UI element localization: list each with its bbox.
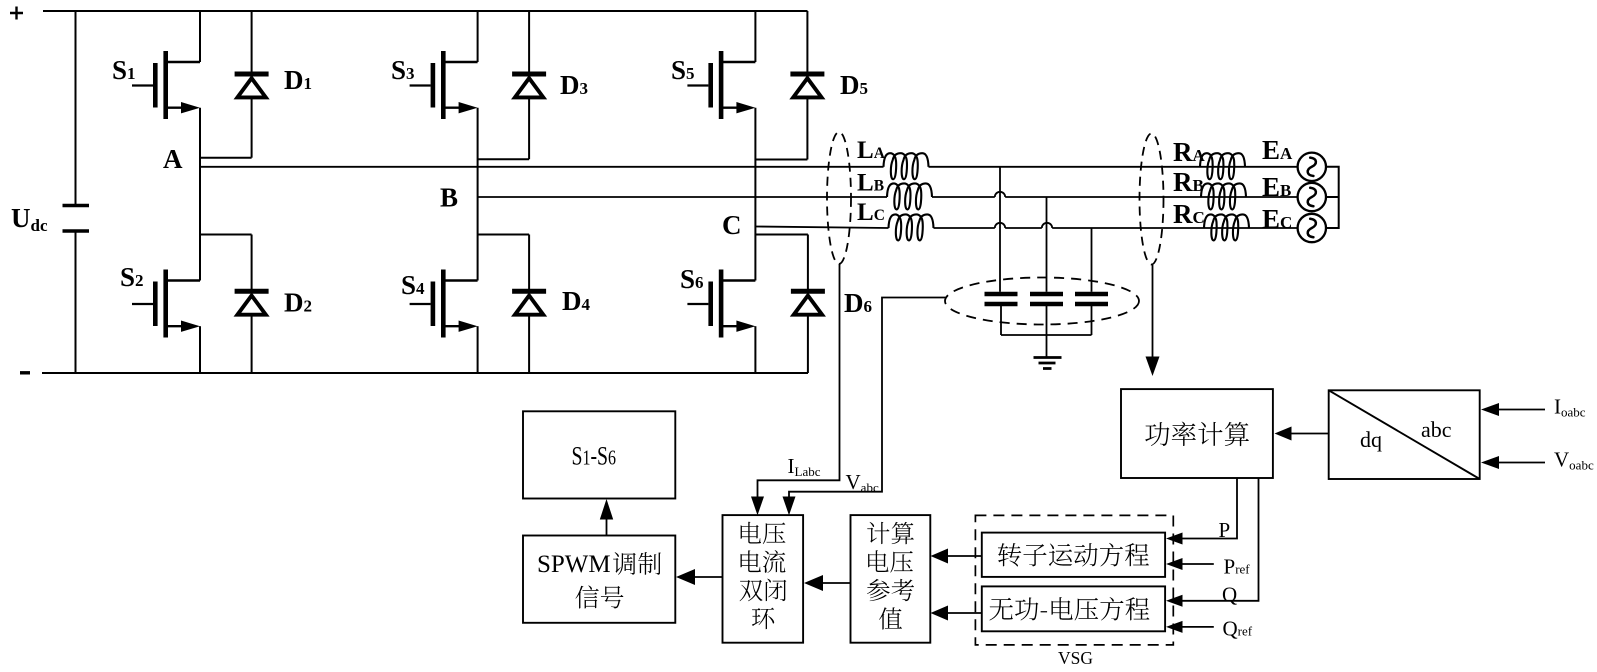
wire: D2 link to leg A bbox=[200, 234, 252, 236]
svg-text:S1-S6: S1-S6 bbox=[572, 441, 617, 470]
inverter-side measurement ellipse bbox=[827, 132, 851, 264]
hop of phase B over tap A bbox=[995, 192, 1005, 197]
wire: S4 emitter to bottom rail bbox=[477, 326, 479, 373]
arrowhead into power-calc bbox=[1146, 357, 1160, 377]
plus terminal label bbox=[10, 7, 23, 20]
svg-text:LC: LC bbox=[857, 199, 885, 226]
svg-text:dq: dq bbox=[1360, 427, 1382, 452]
wire: reactive block to ref-calc arrow bbox=[946, 612, 982, 614]
svg-text:D2: D2 bbox=[284, 288, 312, 318]
filter capacitor C3 bbox=[1075, 294, 1108, 304]
transistor S4 bbox=[410, 270, 478, 338]
svg-text:S1: S1 bbox=[112, 55, 136, 85]
wire: D2 anode to bottom rail bbox=[251, 315, 253, 373]
wire: tap from phase C down to filter capacitor 3 bbox=[1091, 228, 1093, 292]
wire: S6 emitter to bottom rail bbox=[754, 326, 756, 373]
resistor RB (coil) bbox=[1201, 183, 1246, 209]
wire: S3 drain to top rail bbox=[477, 11, 479, 62]
wire: tap from phase A down to filter capacitor 1 bbox=[999, 167, 1001, 292]
hop of phase C over tap B bbox=[1042, 223, 1052, 228]
svg-text:S5: S5 bbox=[671, 55, 695, 85]
svg-text:D4: D4 bbox=[562, 286, 591, 316]
svg-text:VSG: VSG bbox=[1058, 648, 1093, 668]
wire: ILabc measurement lead bbox=[758, 264, 840, 500]
svg-text:Q: Q bbox=[1222, 583, 1237, 607]
abc/dq diagonal bbox=[1329, 390, 1480, 479]
wire: D4 anode to bottom rail bbox=[528, 315, 530, 373]
svg-text:EC: EC bbox=[1262, 204, 1292, 234]
wire: Ioabc input arrow bbox=[1496, 409, 1545, 411]
AC source EB bbox=[1298, 183, 1326, 211]
filter capacitor bank ellipse bbox=[945, 278, 1139, 325]
AC source EA bbox=[1298, 153, 1326, 181]
wire: DC-link left leg bottom bbox=[75, 231, 77, 373]
transistor S6 bbox=[687, 270, 755, 338]
transistor S2 bbox=[132, 270, 200, 338]
wire: D4 cathode up bbox=[528, 235, 530, 292]
wire: D6 anode to bottom rail bbox=[807, 315, 809, 373]
svg-text:abc: abc bbox=[1421, 417, 1452, 442]
svg-text:EB: EB bbox=[1262, 172, 1291, 202]
AC source EC bbox=[1298, 214, 1326, 242]
svg-text:S2: S2 bbox=[120, 262, 144, 292]
arrowhead Ioabc bbox=[1481, 403, 1499, 416]
wire: phase A line bbox=[200, 166, 1298, 168]
svg-text:S4: S4 bbox=[401, 270, 425, 300]
inductor LC bbox=[889, 214, 934, 240]
wires: capacitors to star bus bbox=[1001, 306, 1092, 335]
diode D6 bbox=[791, 291, 825, 314]
wire: Q output of power-calc bbox=[1181, 478, 1259, 601]
svg-text:Pref: Pref bbox=[1224, 555, 1251, 579]
wire: D5 cathode to top rail bbox=[806, 11, 808, 74]
arrowhead Vabc into controller bbox=[783, 497, 796, 516]
wire: Pref input arrow bbox=[1181, 563, 1214, 565]
minus terminal label bbox=[20, 371, 30, 374]
wire: phase-A leg vertical (S1 emitter to S2 collector) bbox=[199, 108, 201, 281]
wire: D3 cathode to top rail bbox=[528, 11, 530, 74]
resistor RC (coil) bbox=[1204, 214, 1249, 240]
arrowhead into dual-loop block bbox=[804, 575, 823, 591]
wire: grid neutral bus bbox=[1326, 167, 1339, 228]
svg-text:D3: D3 bbox=[560, 70, 588, 100]
inductor LB bbox=[887, 183, 932, 209]
wire: D5 link to leg C bbox=[755, 159, 807, 161]
wire: D1 anode down bbox=[251, 98, 253, 158]
svg-text:P: P bbox=[1219, 518, 1231, 542]
wire: phase-C leg vertical bbox=[754, 108, 756, 281]
capacitor Udc bottom plate bbox=[63, 229, 90, 232]
wire: D6 cathode up bbox=[807, 235, 809, 292]
SPWM modulation block bbox=[523, 536, 675, 623]
voltage-reference calc block bbox=[851, 515, 931, 643]
VSG dashed boundary bbox=[975, 515, 1173, 645]
svg-text:RB: RB bbox=[1173, 167, 1204, 197]
wire: S2 emitter to bottom rail bbox=[199, 326, 201, 373]
wire: D1 link to leg A bbox=[200, 157, 252, 159]
rotor motion equation block bbox=[982, 533, 1165, 577]
svg-text:A: A bbox=[163, 144, 183, 174]
wire: dual-loop to SPWM arrow bbox=[693, 576, 723, 578]
wire: phase B line bbox=[478, 196, 1298, 198]
svg-text:D5: D5 bbox=[840, 70, 868, 100]
capacitor Udc top plate bbox=[63, 204, 90, 207]
svg-text:Voabc: Voabc bbox=[1554, 448, 1594, 473]
svg-text:C: C bbox=[722, 210, 742, 240]
svg-text:EA: EA bbox=[1262, 135, 1293, 165]
reactive-voltage equation block bbox=[982, 586, 1165, 631]
wire: bottom DC rail bbox=[42, 372, 808, 374]
arrowhead reactive to ref-calc bbox=[931, 606, 949, 621]
wire: Vabc measurement lead bbox=[789, 298, 946, 501]
filter capacitor C2 bbox=[1030, 294, 1063, 304]
hop of phase C over tap A bbox=[995, 223, 1005, 228]
svg-text:D6: D6 bbox=[844, 288, 872, 318]
diode D5 bbox=[790, 74, 824, 97]
svg-text:RA: RA bbox=[1173, 137, 1206, 167]
svg-text:B: B bbox=[440, 183, 458, 213]
wire: Voabc input arrow bbox=[1496, 462, 1545, 464]
inductor LA bbox=[884, 153, 929, 179]
block text: xin hao bbox=[575, 585, 623, 608]
arrowhead Q into reactive block bbox=[1166, 595, 1183, 607]
arrowhead ILabc into controller bbox=[751, 497, 764, 516]
wire: rotor block to ref-calc arrow bbox=[946, 555, 982, 557]
arrowhead rotor to ref-calc bbox=[931, 549, 949, 564]
wire: D3 link to leg B bbox=[478, 158, 529, 160]
wire: S1 drain to top rail bbox=[199, 11, 201, 62]
wire: star-point bus bbox=[1001, 334, 1092, 336]
wire: phase-B leg vertical bbox=[477, 108, 479, 281]
wire: tap from phase B down to filter capacitor 2 bbox=[1046, 197, 1048, 292]
power calculation block bbox=[1121, 389, 1273, 478]
S1-S6 gate block bbox=[523, 411, 675, 498]
svg-text:SPWM: SPWM bbox=[537, 551, 611, 578]
wire: DC-link left leg top bbox=[75, 11, 77, 205]
filter capacitor C1 bbox=[985, 294, 1018, 304]
arrowhead Voabc bbox=[1481, 456, 1499, 469]
arrowhead Pref bbox=[1166, 558, 1183, 570]
transistor S1 bbox=[132, 51, 200, 119]
wire: D5 anode down bbox=[806, 98, 808, 160]
grid-side measurement ellipse bbox=[1140, 134, 1164, 265]
ground bbox=[1034, 358, 1062, 369]
wire: D6 link to leg C bbox=[755, 234, 808, 236]
voltage-current dual-loop block bbox=[723, 515, 804, 643]
svg-text:S6: S6 bbox=[680, 264, 704, 294]
transistor S5 bbox=[687, 51, 755, 119]
wire: Qref input arrow bbox=[1181, 626, 1214, 628]
wire: S5 drain to top rail bbox=[754, 11, 756, 62]
arrowhead P into rotor block bbox=[1166, 533, 1183, 545]
diode D4 bbox=[512, 291, 546, 314]
diode D2 bbox=[235, 291, 269, 314]
wire: D4 link to leg B bbox=[478, 234, 529, 236]
svg-text:LA: LA bbox=[857, 137, 886, 164]
abc/dq transform block bbox=[1329, 390, 1480, 479]
arrowhead into power-calc right side bbox=[1275, 427, 1292, 441]
diode D3 bbox=[512, 74, 546, 97]
wire: grid measurement to power-calc arrow bbox=[1152, 265, 1154, 358]
svg-text:Vabc: Vabc bbox=[846, 470, 879, 495]
wire: P output of power-calc bbox=[1181, 478, 1237, 539]
svg-text:Udc: Udc bbox=[11, 203, 48, 235]
diode D1 bbox=[235, 74, 269, 97]
svg-text:D1: D1 bbox=[284, 65, 312, 95]
wire: top DC rail bbox=[43, 10, 808, 12]
wire: ref-calc to dual-loop arrow bbox=[821, 582, 851, 584]
wire: phase C line bbox=[755, 227, 1297, 229]
wire: SPWM to S1-S6 arrow bbox=[606, 517, 608, 536]
arrowhead Qref bbox=[1166, 621, 1183, 633]
block text: gong lv ji suan bbox=[1145, 422, 1249, 447]
wire: D2 cathode up bbox=[251, 235, 253, 292]
arrowhead into SPWM block bbox=[676, 569, 695, 585]
svg-text:ILabc: ILabc bbox=[788, 454, 821, 479]
resistor RA (coil) bbox=[1200, 153, 1245, 179]
transistor S3 bbox=[410, 51, 478, 119]
wire: star point to ground bbox=[1046, 335, 1048, 358]
wire: transform to power-calc bbox=[1290, 433, 1329, 435]
svg-text:LB: LB bbox=[857, 170, 884, 197]
svg-text:RC: RC bbox=[1173, 199, 1205, 229]
wire: D3 anode down bbox=[528, 98, 530, 160]
svg-text:Ioabc: Ioabc bbox=[1554, 395, 1586, 420]
svg-text:Qref: Qref bbox=[1223, 617, 1253, 641]
arrowhead SPWM to S1-S6 bbox=[600, 499, 613, 520]
svg-text:S3: S3 bbox=[391, 55, 415, 85]
wire: D1 cathode to top rail bbox=[251, 11, 253, 74]
